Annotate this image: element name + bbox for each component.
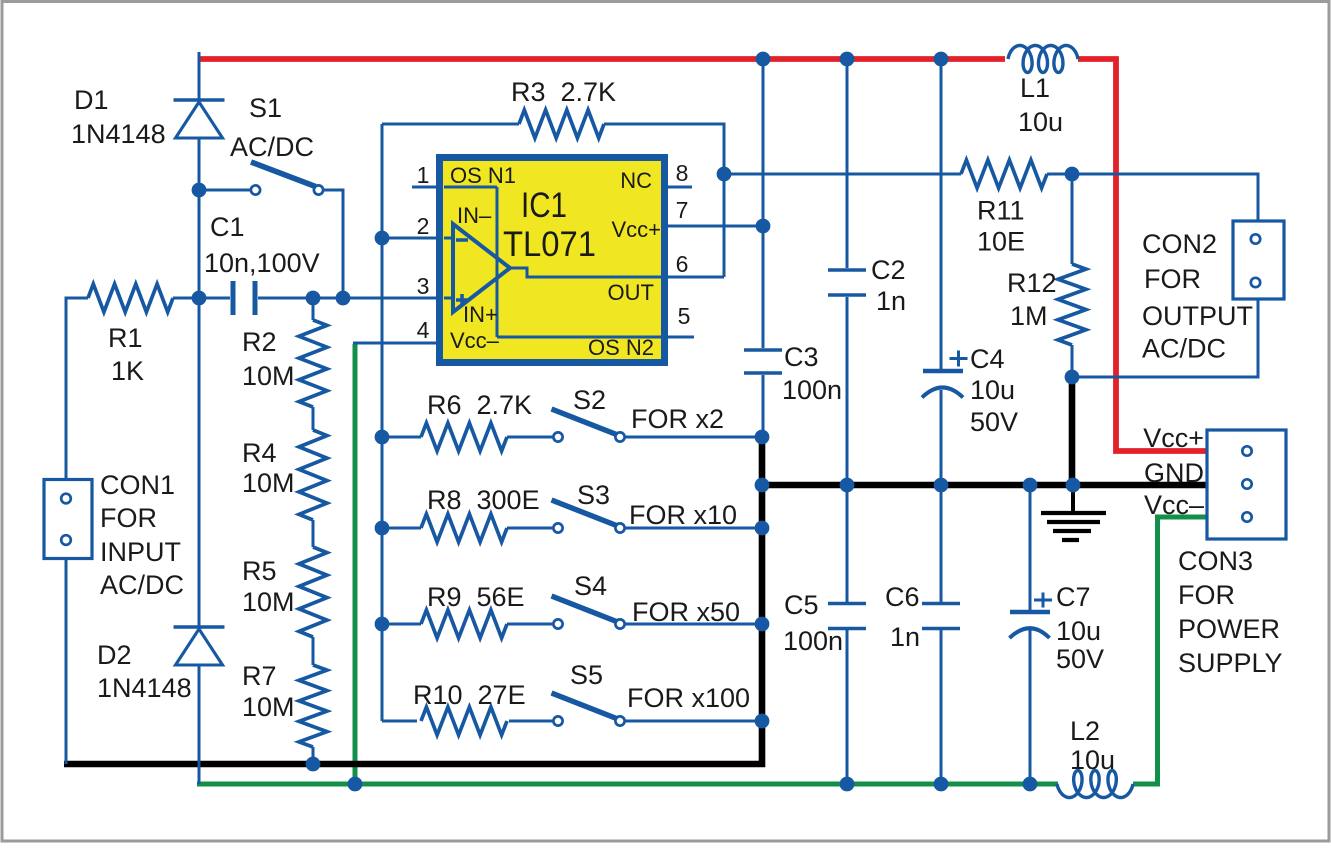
diode D1 bbox=[174, 98, 225, 101]
node C3 gnd junction bbox=[755, 430, 770, 445]
svg-text:R6 2.7K: R6 2.7K bbox=[427, 390, 532, 420]
svg-text:1N4148: 1N4148 bbox=[71, 119, 166, 149]
node bus S3 junction bbox=[375, 521, 390, 536]
wire pin8 NC stub bbox=[664, 186, 692, 189]
node green C7 junction bbox=[1023, 777, 1038, 792]
node red2 junction bbox=[840, 52, 855, 67]
switch S5 bbox=[553, 716, 562, 725]
svg-text:10M: 10M bbox=[242, 587, 295, 617]
capacitor C5 bbox=[828, 602, 866, 606]
wire CON2 bottom to output node bbox=[1072, 299, 1258, 377]
wire Vcc- green right to CON3 bbox=[1133, 517, 1207, 784]
svg-text:AC/DC: AC/DC bbox=[230, 132, 314, 162]
node C1 left junction bbox=[192, 291, 207, 306]
svg-text:5: 5 bbox=[678, 303, 691, 329]
svg-text:S4: S4 bbox=[574, 571, 607, 601]
svg-text:Vcc+: Vcc+ bbox=[1143, 423, 1204, 453]
svg-text:1N4148: 1N4148 bbox=[97, 673, 192, 703]
svg-text:D1: D1 bbox=[74, 85, 109, 115]
svg-text:S3: S3 bbox=[577, 480, 610, 510]
resistor R7 bbox=[299, 665, 327, 747]
wire feedback bus vertical bbox=[381, 124, 384, 721]
svg-text:10u: 10u bbox=[1070, 745, 1115, 775]
svg-text:FOR x50: FOR x50 bbox=[632, 597, 740, 627]
wire S1 right branch down to C1 out bbox=[324, 190, 343, 298]
wire R2 chain column bbox=[312, 298, 315, 320]
svg-text:100n: 100n bbox=[782, 375, 842, 405]
switch S3 bbox=[553, 523, 562, 532]
node D1-S1 junction bbox=[192, 183, 207, 198]
node R7 gnd junction bbox=[306, 757, 321, 772]
wire Vcc- green from pin4 down bbox=[353, 344, 358, 784]
resistor R1 bbox=[88, 284, 173, 312]
switch S1 bbox=[251, 185, 260, 194]
wire S3 row bbox=[382, 527, 421, 530]
svg-text:FOR x100: FOR x100 bbox=[627, 683, 750, 713]
resistor R5 bbox=[299, 547, 327, 637]
svg-text:TL071: TL071 bbox=[503, 225, 596, 264]
wire Vcc- green bottom rail bbox=[197, 782, 1058, 787]
svg-text:10u: 10u bbox=[1056, 616, 1101, 646]
svg-text:Vcc–: Vcc– bbox=[1144, 490, 1204, 520]
svg-text:1n: 1n bbox=[890, 622, 920, 652]
node pin7 Vcc+ junction bbox=[756, 219, 771, 234]
node S1 branch junction bbox=[336, 291, 351, 306]
svg-text:GND: GND bbox=[1144, 458, 1204, 488]
svg-text:S5: S5 bbox=[570, 660, 603, 690]
svg-text:7: 7 bbox=[676, 197, 689, 223]
node R2 top junction bbox=[306, 291, 321, 306]
node OUT junction junction bbox=[717, 167, 732, 182]
resistor R11 bbox=[961, 160, 1047, 188]
resistor R9 bbox=[421, 610, 507, 638]
svg-text:FOR: FOR bbox=[1178, 580, 1235, 610]
svg-text:10M: 10M bbox=[242, 361, 295, 391]
node R11-R12 junction bbox=[1065, 167, 1080, 182]
svg-text:OUTPUT: OUTPUT bbox=[1142, 301, 1253, 331]
node gnd bus4 junction bbox=[755, 714, 770, 729]
svg-text:R12: R12 bbox=[1007, 268, 1057, 298]
svg-text:R8 300E: R8 300E bbox=[427, 485, 540, 515]
node green C5 junction bbox=[840, 777, 855, 792]
wire Vcc+ red rail right bbox=[1078, 59, 1207, 451]
svg-text:1M: 1M bbox=[1010, 301, 1048, 331]
wire GND thick black horizontal to CON3 bbox=[759, 482, 1207, 489]
svg-text:C1: C1 bbox=[210, 212, 245, 242]
wire GND thick black bus vertical and bottom bbox=[64, 437, 762, 764]
svg-text:CON3: CON3 bbox=[1178, 546, 1253, 576]
ground bbox=[1071, 487, 1075, 511]
connector CON1 bbox=[44, 480, 92, 559]
wire C4/C6 column bbox=[940, 59, 943, 369]
svg-text:10u: 10u bbox=[970, 375, 1015, 405]
wire Vcc+ column C3 bbox=[762, 59, 765, 348]
node bus S2 junction bbox=[375, 430, 390, 445]
svg-text:R9 56E: R9 56E bbox=[427, 582, 525, 612]
wire D2 column bbox=[198, 298, 201, 784]
svg-text:C2: C2 bbox=[871, 255, 906, 285]
capacitor C3 bbox=[744, 348, 782, 352]
svg-text:C6: C6 bbox=[885, 582, 920, 612]
wire S2 row bbox=[382, 436, 421, 439]
capacitor C1 bbox=[231, 281, 236, 315]
svg-text:CON2: CON2 bbox=[1142, 229, 1217, 259]
node gnd bus3 junction bbox=[755, 617, 770, 632]
connector CON2 bbox=[1233, 221, 1284, 299]
svg-text:OS N1: OS N1 bbox=[450, 163, 516, 188]
node red3 junction bbox=[934, 52, 949, 67]
resistor R4 bbox=[299, 430, 327, 520]
node gnd bus2 junction bbox=[755, 521, 770, 536]
wire OUT row to R11 bbox=[724, 173, 961, 176]
svg-text:C4: C4 bbox=[970, 344, 1005, 374]
svg-text:IC1: IC1 bbox=[521, 186, 567, 225]
wire R3 right lead and down to pin6 bbox=[604, 124, 724, 277]
wire Vcc+ red rail top bbox=[198, 56, 1006, 62]
svg-text:C7: C7 bbox=[1056, 582, 1091, 612]
switch S2 bbox=[553, 432, 562, 441]
resistor R10 bbox=[421, 707, 507, 735]
wire pin7 stub to Vcc+ column bbox=[664, 225, 763, 228]
svg-text:3: 3 bbox=[417, 273, 430, 299]
wire C1 left lead bbox=[173, 297, 230, 300]
svg-text:INPUT: INPUT bbox=[100, 537, 181, 567]
svg-text:NC: NC bbox=[620, 168, 652, 193]
svg-text:FOR x10: FOR x10 bbox=[629, 500, 737, 530]
wire pin2 stub bbox=[382, 237, 444, 240]
connector CON3 bbox=[1207, 430, 1286, 539]
svg-text:R5: R5 bbox=[242, 556, 277, 586]
svg-text:100n: 100n bbox=[783, 626, 843, 656]
svg-text:R4: R4 bbox=[242, 438, 277, 468]
svg-text:C3: C3 bbox=[784, 342, 819, 372]
resistor R3 bbox=[519, 110, 604, 138]
svg-text:10E: 10E bbox=[977, 227, 1025, 257]
svg-text:1: 1 bbox=[417, 162, 430, 188]
capacitor C2 bbox=[828, 268, 866, 272]
svg-text:S2: S2 bbox=[573, 385, 606, 415]
node green C6 junction bbox=[934, 777, 949, 792]
svg-text:IN+: IN+ bbox=[463, 302, 498, 327]
svg-text:IN–: IN– bbox=[457, 203, 492, 228]
svg-text:R10 27E: R10 27E bbox=[413, 680, 526, 710]
wire S4 row bbox=[382, 623, 421, 626]
svg-text:6: 6 bbox=[676, 251, 689, 277]
svg-text:S1: S1 bbox=[249, 93, 282, 123]
wire R12 leads bbox=[1071, 174, 1074, 264]
svg-text:R11: R11 bbox=[977, 196, 1025, 226]
wire C1 right lead / pin3 line bbox=[258, 297, 444, 300]
capacitor C6 bbox=[922, 602, 960, 606]
svg-text:Vcc+: Vcc+ bbox=[611, 217, 661, 242]
wire output node to CON2 top bbox=[1072, 174, 1258, 221]
svg-text:SUPPLY: SUPPLY bbox=[1178, 648, 1283, 678]
wire R3 left lead bbox=[382, 123, 519, 126]
capacitor C4 bbox=[923, 369, 963, 374]
inductor L2 bbox=[1057, 771, 1133, 798]
node gnd C5 junction bbox=[840, 478, 855, 493]
wire left input column bbox=[65, 298, 68, 481]
node output junction bbox=[1065, 370, 1080, 385]
svg-text:FOR x2: FOR x2 bbox=[631, 404, 724, 434]
resistor R8 bbox=[421, 514, 507, 542]
svg-text:10M: 10M bbox=[242, 692, 295, 722]
resistor R12 bbox=[1058, 264, 1086, 345]
svg-text:C5: C5 bbox=[784, 590, 819, 620]
svg-text:1K: 1K bbox=[111, 356, 144, 386]
switch S4 bbox=[553, 619, 562, 628]
capacitor C7 bbox=[1010, 610, 1050, 615]
svg-text:1n: 1n bbox=[876, 286, 906, 316]
wire D1 column bbox=[198, 52, 201, 298]
wire S1 left lead bbox=[199, 189, 253, 192]
svg-text:Vcc–: Vcc– bbox=[450, 328, 500, 353]
node green join junction bbox=[348, 777, 363, 792]
svg-text:4: 4 bbox=[417, 317, 430, 343]
node red1 junction bbox=[756, 52, 771, 67]
inductor L1 bbox=[1008, 46, 1078, 73]
svg-text:R1: R1 bbox=[108, 323, 143, 353]
svg-text:L1: L1 bbox=[1020, 73, 1050, 103]
svg-text:POWER: POWER bbox=[1178, 614, 1280, 644]
wire S5 row bbox=[382, 720, 417, 723]
wire GND black from output node down bbox=[1069, 377, 1076, 485]
node gnd C7 junction bbox=[1023, 478, 1038, 493]
svg-text:AC/DC: AC/DC bbox=[1142, 334, 1226, 364]
svg-text:8: 8 bbox=[676, 160, 689, 186]
svg-text:10u: 10u bbox=[1018, 107, 1063, 137]
wire C7 column bbox=[1029, 485, 1032, 610]
svg-text:CON1: CON1 bbox=[100, 470, 175, 500]
svg-text:OUT: OUT bbox=[608, 280, 654, 305]
node bus S4 junction bbox=[375, 617, 390, 632]
svg-text:D2: D2 bbox=[97, 640, 132, 670]
wire pin1 stub bbox=[412, 186, 444, 189]
wire pin5 stub bbox=[664, 336, 694, 339]
node gnd out junction bbox=[1066, 478, 1081, 493]
svg-text:FOR: FOR bbox=[1144, 264, 1201, 294]
resistor R2 bbox=[299, 320, 327, 407]
svg-text:L2: L2 bbox=[1070, 716, 1100, 746]
svg-text:50V: 50V bbox=[970, 407, 1018, 437]
node gnd C6 junction bbox=[934, 478, 949, 493]
wire pin4 stub bbox=[353, 342, 444, 345]
node pin2 feedback junction bbox=[375, 231, 390, 246]
wire R11 right lead bbox=[1047, 173, 1072, 176]
op-amp IC1 TL071 bbox=[440, 158, 665, 363]
wire R1 row left lead bbox=[65, 297, 89, 300]
wire C2/C5 column bbox=[846, 59, 849, 268]
svg-text:10M: 10M bbox=[242, 468, 295, 498]
svg-text:50V: 50V bbox=[1056, 644, 1104, 674]
svg-text:R2: R2 bbox=[242, 327, 277, 357]
resistor R6 bbox=[421, 423, 507, 451]
wire pin6 OUT bbox=[664, 276, 724, 279]
svg-text:FOR: FOR bbox=[100, 503, 157, 533]
svg-text:R7: R7 bbox=[242, 661, 277, 691]
svg-text:AC/DC: AC/DC bbox=[100, 570, 184, 600]
svg-text:R3 2.7K: R3 2.7K bbox=[511, 77, 616, 107]
diode D2 bbox=[174, 625, 225, 628]
svg-text:10n,100V: 10n,100V bbox=[204, 248, 320, 278]
svg-text:2: 2 bbox=[417, 213, 430, 239]
node gnd bus1 junction bbox=[755, 478, 770, 493]
svg-text:OS N2: OS N2 bbox=[588, 335, 654, 360]
